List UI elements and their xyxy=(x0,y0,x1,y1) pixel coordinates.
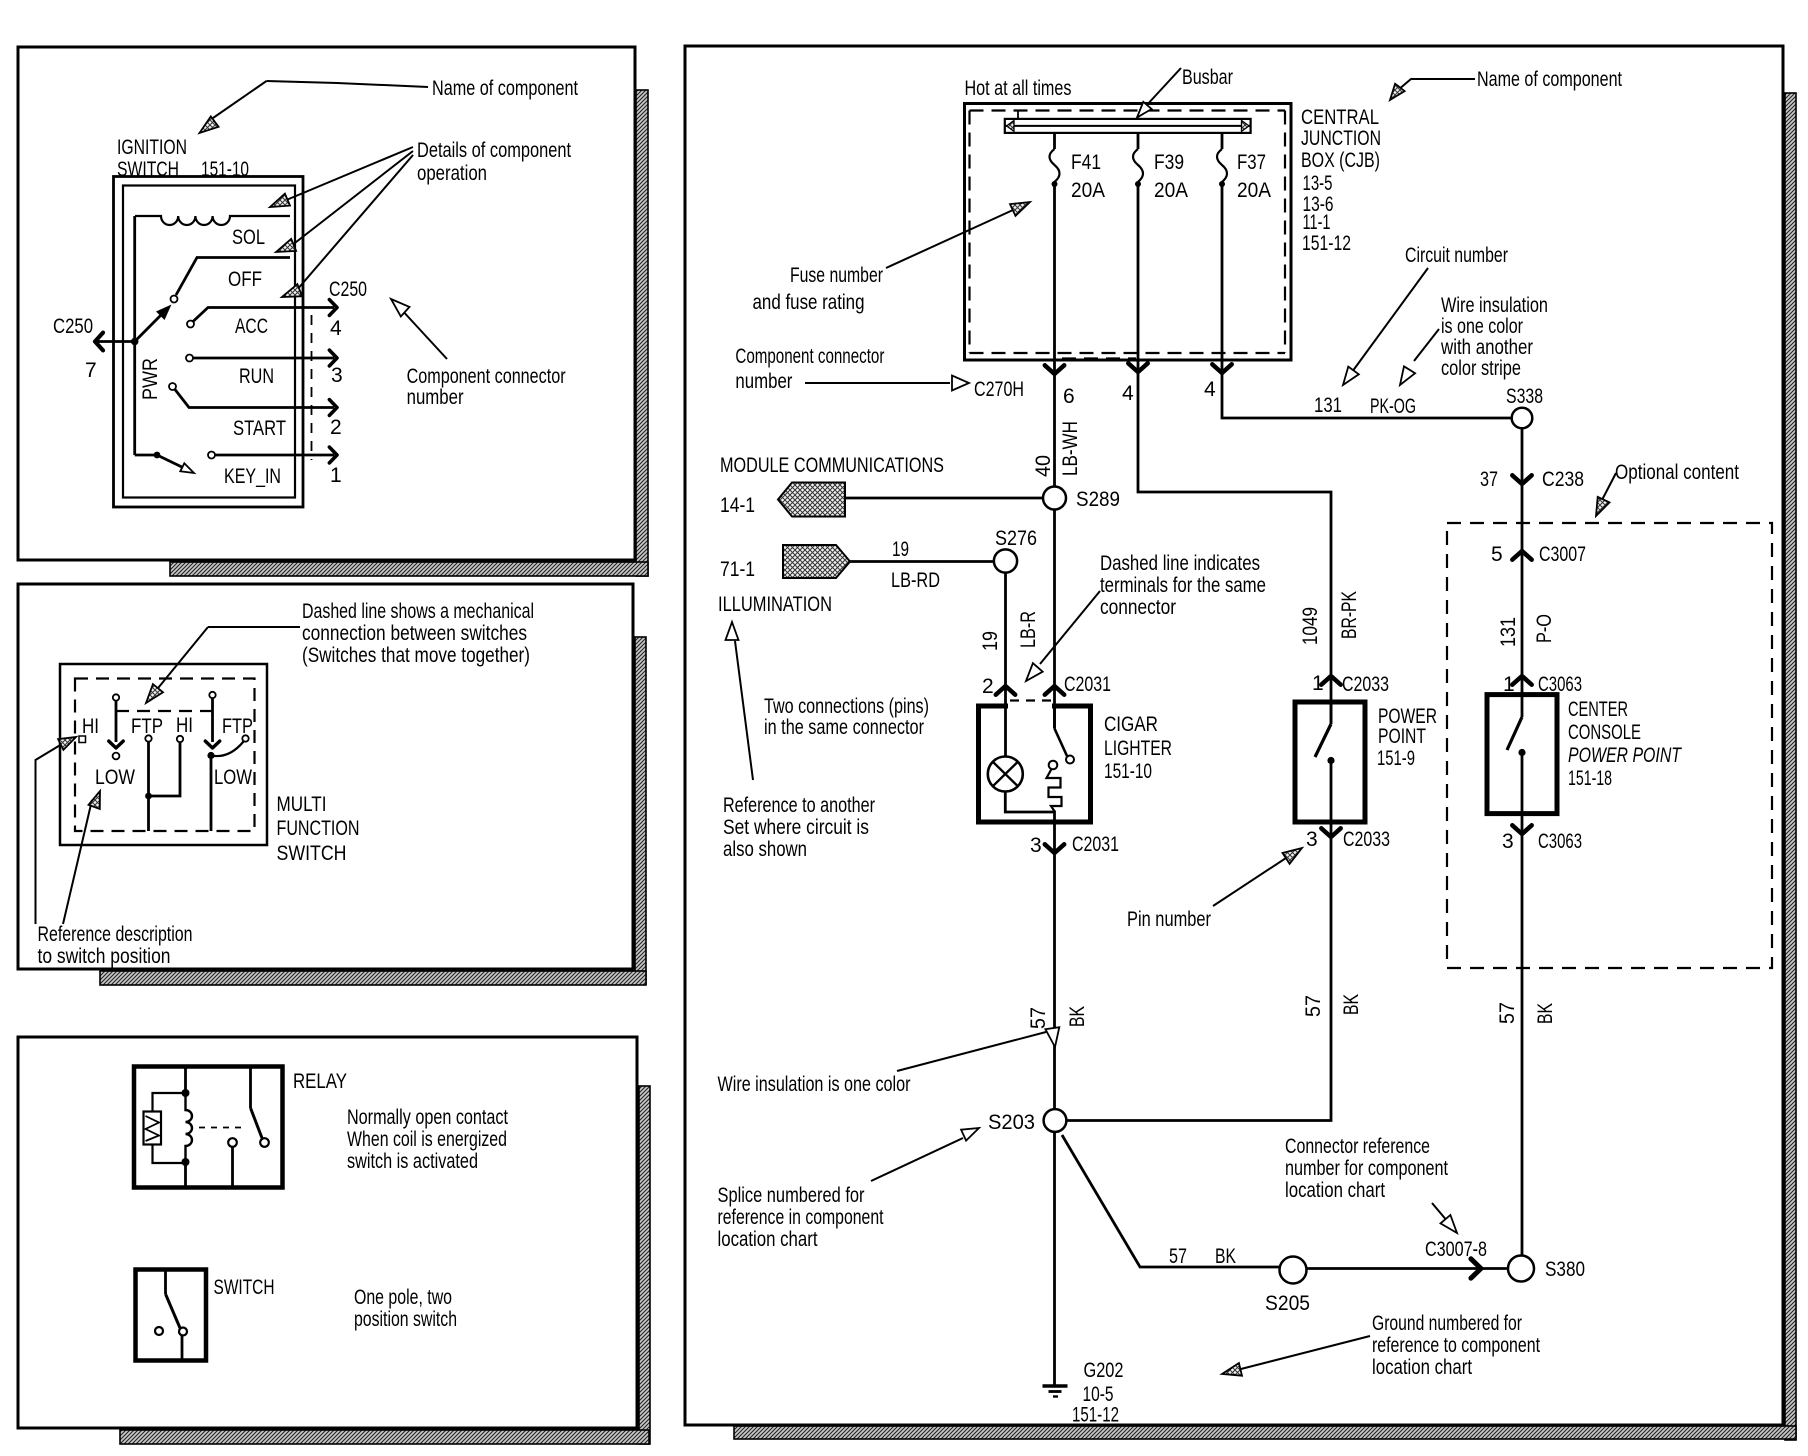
label HI 1 xyxy=(79,715,99,743)
svg-text:with another: with another xyxy=(1440,336,1533,359)
connector arrow C3007 pin 5 xyxy=(1512,551,1531,560)
svg-text:One pole, two: One pole, two xyxy=(354,1286,452,1309)
wire START xyxy=(169,383,334,408)
svg-text:RELAY: RELAY xyxy=(293,1070,347,1093)
switch blade KEY_IN xyxy=(154,452,194,473)
svg-text:SOL: SOL xyxy=(232,226,265,249)
svg-text:Dashed line indicates: Dashed line indicates xyxy=(1100,552,1260,575)
relay switch xyxy=(228,1067,269,1188)
wire S205 to S380 xyxy=(1307,1267,1509,1270)
svg-text:2: 2 xyxy=(982,675,994,698)
svg-text:20A: 20A xyxy=(1154,179,1188,202)
legend panel 3 shadow xyxy=(120,1086,650,1444)
svg-text:14-1: 14-1 xyxy=(720,494,755,517)
svg-text:Normally open contact: Normally open contact xyxy=(347,1106,508,1129)
relay resistor branch xyxy=(144,1093,186,1163)
svg-text:71-1: 71-1 xyxy=(720,558,755,581)
svg-text:S380: S380 xyxy=(1545,1258,1585,1281)
svg-text:Optional content: Optional content xyxy=(1615,461,1739,484)
svg-text:connector: connector xyxy=(1100,596,1176,619)
annotation: Wire insulation is one color with another color stripe xyxy=(1400,294,1548,385)
svg-text:position switch: position switch xyxy=(354,1308,457,1331)
svg-text:S289: S289 xyxy=(1076,488,1120,511)
svg-text:Name of component: Name of component xyxy=(432,77,578,100)
legend panel 2 frame xyxy=(18,584,633,969)
svg-text:Two connections (pins): Two connections (pins) xyxy=(764,695,929,718)
node PWR junction xyxy=(131,338,139,346)
connector arrow C3063 pin 3 xyxy=(1512,825,1531,834)
svg-text:CENTER: CENTER xyxy=(1568,698,1628,721)
svg-text:MODULE COMMUNICATIONS: MODULE COMMUNICATIONS xyxy=(720,454,944,477)
switch pole 3 (FTP/LOW) xyxy=(205,692,248,831)
connector arrow C250 pin 7 (left) xyxy=(95,333,103,351)
relay box xyxy=(134,1067,283,1188)
svg-text:4: 4 xyxy=(330,317,342,340)
annotation: Reference to another Set where circuit is also shown xyxy=(723,622,875,861)
central junction box dashed outline xyxy=(970,111,1286,359)
annotation: Normally open contact xyxy=(347,1106,508,1173)
svg-text:LB-RD: LB-RD xyxy=(891,569,940,592)
svg-text:C238: C238 xyxy=(1542,468,1584,491)
svg-text:151-10: 151-10 xyxy=(201,158,249,181)
svg-text:IGNITION: IGNITION xyxy=(117,136,187,159)
switch symbol box xyxy=(136,1270,207,1361)
label CIGAR LIGHTER 151-10 xyxy=(1104,713,1172,783)
svg-text:151-12: 151-12 xyxy=(1302,232,1351,255)
svg-text:C2033: C2033 xyxy=(1342,673,1389,696)
svg-text:FUNCTION: FUNCTION xyxy=(277,817,360,840)
svg-text:operation: operation xyxy=(417,162,487,185)
annotation: Component connector number (panel 1) xyxy=(391,299,566,409)
annotation: Connector reference number for component location chart xyxy=(1285,1135,1457,1233)
svg-text:19: 19 xyxy=(979,631,1002,651)
svg-text:Fuse number: Fuse number xyxy=(790,264,883,287)
multifunction switch outer box xyxy=(60,664,267,845)
svg-text:151-18: 151-18 xyxy=(1568,767,1612,790)
svg-text:57: 57 xyxy=(1496,1002,1519,1024)
svg-text:Details of component: Details of component xyxy=(417,139,571,162)
wire 1049 BR-PK (F39 to power point) xyxy=(1138,351,1331,724)
central junction box outline xyxy=(965,104,1292,361)
busbar xyxy=(1005,111,1251,133)
annotation: One pole two position switch xyxy=(354,1286,457,1331)
off-page arrow ILLUMINATION 71-1 xyxy=(783,545,850,578)
legend panel 1 shadow xyxy=(170,90,648,576)
switch pole 2 (FTP/HI bridge) xyxy=(145,735,183,831)
svg-text:20A: 20A xyxy=(1237,179,1271,202)
wire 40 LB-WH (F41 to S289) xyxy=(1053,351,1056,487)
splice S205 xyxy=(1280,1257,1307,1284)
svg-text:PK-OG: PK-OG xyxy=(1370,395,1416,418)
annotation: Busbar xyxy=(1137,66,1233,118)
cigar lighter element switch xyxy=(1047,706,1075,812)
svg-text:131: 131 xyxy=(1497,617,1520,647)
svg-text:BOX (CJB): BOX (CJB) xyxy=(1301,149,1380,172)
annotation: Two connections (pins) in the same connector xyxy=(764,695,929,739)
label F41 20A xyxy=(1071,151,1105,202)
svg-text:1049: 1049 xyxy=(1299,607,1322,645)
svg-text:BK: BK xyxy=(1534,1003,1557,1024)
svg-text:KEY_IN: KEY_IN xyxy=(224,465,281,488)
wire 19 LB-RD (to S276) xyxy=(850,560,994,563)
svg-text:Circuit number: Circuit number xyxy=(1405,244,1508,267)
relay coil wire top xyxy=(184,1067,187,1094)
connector arrow CJB pin 4b xyxy=(1212,364,1231,373)
svg-text:37: 37 xyxy=(1480,468,1498,491)
svg-text:LIGHTER: LIGHTER xyxy=(1104,737,1172,760)
label CENTER CONSOLE POWER POINT 151-18 xyxy=(1568,698,1683,790)
annotation: Component connector number (main panel) xyxy=(735,345,969,393)
splice S380 xyxy=(1508,1256,1534,1282)
svg-text:3: 3 xyxy=(331,364,343,387)
off-page arrow MODULE COMMUNICATIONS 14-1 xyxy=(778,483,845,517)
svg-text:57: 57 xyxy=(1169,1245,1187,1268)
relay coil wire bottom xyxy=(184,1162,187,1188)
connector arrow CJB pin 6 xyxy=(1045,365,1064,374)
svg-text:S276: S276 xyxy=(995,527,1037,550)
svg-text:SWITCH: SWITCH xyxy=(117,158,179,181)
svg-text:(Switches that move together): (Switches that move together) xyxy=(302,644,530,667)
svg-text:FTP: FTP xyxy=(131,715,163,738)
svg-text:6: 6 xyxy=(1063,385,1075,408)
wire KEY_IN xyxy=(208,452,334,459)
wire OFF line xyxy=(171,258,291,303)
annotation: Name of component (panel 1) xyxy=(200,77,579,133)
svg-text:BK: BK xyxy=(1340,994,1363,1015)
svg-text:HI: HI xyxy=(176,714,193,737)
svg-text:SWITCH: SWITCH xyxy=(277,842,347,865)
annotation: Details of component operation xyxy=(270,139,571,297)
svg-text:C270H: C270H xyxy=(974,378,1024,401)
svg-text:Ground numbered for: Ground numbered for xyxy=(1372,1312,1522,1335)
connector arrow RUN pin 3 xyxy=(329,350,337,366)
svg-text:connection between switches: connection between switches xyxy=(302,622,527,645)
wire 57 BK (power point to S203) xyxy=(1066,822,1331,1121)
svg-text:number: number xyxy=(407,386,464,409)
center console power point box xyxy=(1487,695,1557,814)
svg-text:LB-WH: LB-WH xyxy=(1059,421,1082,476)
svg-text:C250: C250 xyxy=(329,278,367,301)
splice S276 xyxy=(994,549,1017,572)
svg-text:Component connector: Component connector xyxy=(735,345,884,368)
connector arrow CJB pin 4a xyxy=(1128,363,1147,372)
svg-text:57: 57 xyxy=(1302,995,1325,1017)
wire 19 LB-R (S276 to cigar lighter) xyxy=(1004,573,1007,757)
svg-text:location chart: location chart xyxy=(1372,1356,1472,1379)
wire 131 P-O (S338 to center console) xyxy=(1521,428,1524,694)
svg-text:number for component: number for component xyxy=(1285,1157,1448,1180)
annotation: Ground numbered for reference to component location chart xyxy=(1222,1312,1540,1379)
svg-text:3: 3 xyxy=(1502,830,1514,853)
svg-text:switch is activated: switch is activated xyxy=(347,1150,478,1173)
svg-text:CIGAR: CIGAR xyxy=(1104,713,1158,736)
svg-text:location chart: location chart xyxy=(718,1228,818,1251)
svg-text:START: START xyxy=(233,417,286,440)
svg-text:When coil is energized: When coil is energized xyxy=(347,1128,507,1151)
svg-text:also shown: also shown xyxy=(723,838,807,861)
svg-text:PWR: PWR xyxy=(139,358,162,400)
svg-text:Set where circuit is: Set where circuit is xyxy=(723,816,869,839)
connector arrow C2031 pin 1 xyxy=(1045,686,1064,695)
svg-text:SWITCH: SWITCH xyxy=(214,1276,275,1299)
svg-text:1: 1 xyxy=(1312,672,1324,695)
multifunction switch dashed box xyxy=(75,679,255,832)
svg-text:2: 2 xyxy=(330,416,342,439)
annotation: Name of component (main panel) xyxy=(1390,68,1622,100)
svg-text:and fuse rating: and fuse rating xyxy=(753,291,865,314)
connector arrow C2033 pin 3 xyxy=(1321,828,1340,837)
fuse F39 xyxy=(1133,133,1143,187)
wire 57 BK (center console to S380) xyxy=(1521,814,1524,1256)
cigar lighter box xyxy=(979,701,1091,823)
label POWER POINT 151-9 xyxy=(1377,705,1437,770)
svg-text:BK: BK xyxy=(1066,1006,1089,1027)
svg-text:C3063: C3063 xyxy=(1538,830,1582,853)
annotation: Reference description to switch position xyxy=(36,737,193,968)
svg-text:Component connector: Component connector xyxy=(407,365,566,388)
svg-text:C250: C250 xyxy=(53,315,93,338)
svg-text:151-12: 151-12 xyxy=(1072,1404,1119,1427)
svg-text:3: 3 xyxy=(1030,834,1042,857)
svg-text:reference to component: reference to component xyxy=(1372,1334,1540,1357)
wire F39 output xyxy=(1137,184,1140,351)
legend panel 3 frame xyxy=(18,1037,637,1428)
connector arrow START pin 2 xyxy=(329,400,337,416)
label CENTRAL JUNCTION BOX (CJB) xyxy=(1301,106,1381,255)
label F39 20A xyxy=(1154,151,1188,202)
wire ACC xyxy=(187,308,334,328)
svg-text:reference in component: reference in component xyxy=(718,1206,884,1229)
ignition switch coil (solenoid winding) xyxy=(135,216,290,225)
wire F41 output xyxy=(1053,184,1056,351)
svg-text:Wire insulation is one color: Wire insulation is one color xyxy=(718,1073,911,1096)
svg-text:Splice numbered for: Splice numbered for xyxy=(718,1184,865,1207)
switch blade PWR xyxy=(135,306,170,342)
svg-text:LOW: LOW xyxy=(214,766,252,789)
main panel shadow xyxy=(734,93,1796,1440)
center console switch xyxy=(1507,695,1526,814)
annotation: Splice numbered for reference in component location chart xyxy=(718,1128,980,1251)
svg-text:Wire insulation: Wire insulation xyxy=(1441,294,1548,317)
svg-text:F41: F41 xyxy=(1071,151,1101,174)
label MULTI FUNCTION SWITCH xyxy=(277,793,360,865)
relay coil winding xyxy=(186,1093,193,1162)
connector arrow ACC pin 4 xyxy=(329,300,337,316)
svg-text:C2033: C2033 xyxy=(1343,828,1390,851)
svg-text:Hot at all times: Hot at all times xyxy=(965,77,1072,100)
svg-text:Pin number: Pin number xyxy=(1127,908,1211,931)
switch symbol pole xyxy=(155,1270,187,1361)
svg-text:C2031: C2031 xyxy=(1072,833,1119,856)
svg-text:P-O: P-O xyxy=(1533,614,1556,643)
wire LB-WH (S289 to cigar lighter) xyxy=(1053,510,1056,729)
svg-text:S203: S203 xyxy=(988,1111,1035,1134)
power point switch xyxy=(1315,702,1335,822)
svg-text:13-5: 13-5 xyxy=(1303,172,1333,195)
svg-text:G202: G202 xyxy=(1084,1359,1124,1382)
svg-text:Busbar: Busbar xyxy=(1182,66,1233,89)
connector arrow C238 pin 37 xyxy=(1512,475,1531,484)
wire RUN xyxy=(186,355,334,362)
svg-text:JUNCTION: JUNCTION xyxy=(1301,127,1381,150)
svg-text:Reference description: Reference description xyxy=(38,923,193,946)
svg-text:151-10: 151-10 xyxy=(1104,760,1152,783)
fuse F41 xyxy=(1050,133,1060,187)
svg-text:Dashed line shows a mechanical: Dashed line shows a mechanical xyxy=(302,600,534,623)
connector arrow KEY_IN pin 1 xyxy=(329,447,337,463)
connector arrow C3063 pin 1 xyxy=(1512,676,1531,685)
switch pole 1 (HI/LOW) xyxy=(109,694,123,759)
connector arrow C2033 pin 1 xyxy=(1321,676,1340,685)
svg-text:LB-R: LB-R xyxy=(1017,611,1040,648)
annotation: Optional content xyxy=(1596,461,1739,516)
svg-text:number: number xyxy=(735,370,792,393)
annotation: Circuit number xyxy=(1343,244,1508,385)
svg-text:POWER POINT: POWER POINT xyxy=(1568,744,1683,767)
dashed mechanical connection line xyxy=(116,710,213,712)
svg-text:S205: S205 xyxy=(1265,1292,1310,1315)
label F37 20A xyxy=(1237,151,1271,202)
svg-text:19: 19 xyxy=(892,538,909,561)
relay dashed actuation line xyxy=(199,1127,241,1129)
svg-text:C2031: C2031 xyxy=(1064,673,1111,696)
ignition switch outer box xyxy=(114,177,304,508)
svg-text:is one color: is one color xyxy=(1441,315,1523,338)
svg-text:5: 5 xyxy=(1491,543,1503,566)
wire S289 to module communications xyxy=(845,497,1043,500)
fuse F37 xyxy=(1217,133,1227,187)
svg-text:F37: F37 xyxy=(1237,151,1266,174)
wire PWR vertical xyxy=(135,216,157,455)
dashed connector line C250 xyxy=(311,315,313,460)
svg-text:BK: BK xyxy=(1215,1245,1236,1268)
annotation: Pin number xyxy=(1127,848,1302,931)
optional content dashed box xyxy=(1447,523,1772,968)
node coil bottom junction xyxy=(182,1158,190,1166)
svg-text:terminals for the same: terminals for the same xyxy=(1100,574,1266,597)
svg-text:S338: S338 xyxy=(1506,385,1543,408)
legend panel 1 frame xyxy=(18,47,635,560)
connector arrow C2031 pin 2 xyxy=(996,686,1015,695)
svg-text:HI: HI xyxy=(82,715,99,738)
ground G202 xyxy=(1043,1386,1068,1397)
svg-text:RUN: RUN xyxy=(239,365,274,388)
svg-text:40: 40 xyxy=(1032,455,1055,477)
svg-text:57: 57 xyxy=(1027,1007,1050,1029)
svg-text:F39: F39 xyxy=(1154,151,1184,174)
svg-text:FTP: FTP xyxy=(222,715,253,738)
svg-text:7: 7 xyxy=(85,359,97,382)
annotation: Wire insulation is one color xyxy=(718,1027,1060,1096)
wire S203 to S205 xyxy=(1062,1135,1280,1267)
svg-text:4: 4 xyxy=(1122,382,1134,405)
annotation: Dashed line indicates terminals for the same connector xyxy=(1026,552,1266,681)
svg-text:OFF: OFF xyxy=(228,268,262,291)
lamp symbol (cigar lighter illumination) xyxy=(988,757,1023,792)
splice S338 xyxy=(1512,408,1533,429)
svg-text:location chart: location chart xyxy=(1285,1179,1385,1202)
svg-text:4: 4 xyxy=(1204,378,1216,401)
wire 131 PK-OG (F37 to S338) xyxy=(1222,351,1511,418)
svg-text:to switch position: to switch position xyxy=(38,945,171,968)
svg-text:C3007: C3007 xyxy=(1539,543,1586,566)
svg-text:LOW: LOW xyxy=(95,766,135,789)
svg-text:3: 3 xyxy=(1306,828,1318,851)
svg-text:CONSOLE: CONSOLE xyxy=(1568,721,1641,744)
ignition switch inner box xyxy=(123,186,295,498)
svg-text:151-9: 151-9 xyxy=(1377,747,1415,770)
svg-text:POINT: POINT xyxy=(1378,725,1426,748)
svg-text:1: 1 xyxy=(330,464,342,487)
svg-text:131: 131 xyxy=(1314,394,1342,417)
wire 57 BK (cigar lighter to S203) xyxy=(1053,822,1056,1109)
power point box xyxy=(1295,702,1365,822)
label G202 10-5 151-12 xyxy=(1072,1359,1124,1427)
wire S203 to ground xyxy=(1053,1132,1056,1386)
svg-text:Name of component: Name of component xyxy=(1477,68,1622,91)
svg-text:Connector reference: Connector reference xyxy=(1285,1135,1430,1158)
legend panel 2 shadow xyxy=(100,637,646,985)
svg-text:CENTRAL: CENTRAL xyxy=(1301,106,1379,129)
wire F37 output xyxy=(1221,184,1224,351)
svg-text:color stripe: color stripe xyxy=(1441,357,1521,380)
splice S289 xyxy=(1043,487,1066,510)
connector arrow C2031 pin 3 xyxy=(1045,844,1064,853)
main panel frame xyxy=(685,46,1783,1425)
svg-text:ILLUMINATION: ILLUMINATION xyxy=(718,593,832,616)
svg-text:Reference to another: Reference to another xyxy=(723,794,875,817)
wire C250 pin7 stub xyxy=(96,340,135,343)
svg-text:BR-PK: BR-PK xyxy=(1338,591,1361,639)
annotation: Fuse number and fuse rating xyxy=(753,202,1031,314)
svg-text:MULTI: MULTI xyxy=(277,793,327,816)
svg-text:in the same connector: in the same connector xyxy=(764,716,924,739)
svg-text:ACC: ACC xyxy=(235,315,268,338)
wire lamp to element bottom xyxy=(1005,792,1054,823)
splice S203 xyxy=(1044,1109,1067,1132)
node coil top junction xyxy=(182,1089,190,1097)
svg-text:11-1: 11-1 xyxy=(1303,211,1331,234)
svg-text:C3007-8: C3007-8 xyxy=(1425,1238,1487,1261)
svg-text:20A: 20A xyxy=(1071,179,1105,202)
connector arrow C3007-8 xyxy=(1471,1259,1481,1278)
annotation: Dashed line shows a mechanical connection xyxy=(146,600,534,703)
label IGNITION SWITCH 151-10 xyxy=(117,136,249,181)
